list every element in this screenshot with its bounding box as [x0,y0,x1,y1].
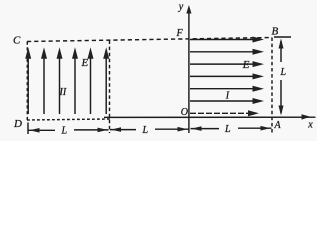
field arrow region I row1 (on dashed top edge) [190,37,264,43]
svg-text:II: II [59,87,67,98]
svg-text:B: B [272,26,279,38]
field arrow region II #1 [25,47,31,114]
bottom dashed edge D-to-O (left part) [27,119,110,120]
svg-text:O: O [181,107,188,118]
field arrow region II #5 [88,47,94,114]
x-axis [104,114,316,119]
svg-text:I: I [225,91,230,102]
field arrow region II #3 [57,47,63,114]
svg-text:L: L [61,126,68,137]
field arrow region II #4 [72,47,78,114]
svg-text:A: A [274,120,282,131]
field arrow region I row5 [190,86,264,92]
field arrow region I row7 [190,110,259,116]
field arrow region II #6 [103,47,109,114]
y-axis [186,5,191,133]
middle dashed boundary at x=109 [109,41,111,134]
svg-text:x: x [307,119,313,130]
svg-text:L: L [142,125,149,136]
svg-text:y: y [178,1,184,12]
svg-text:E: E [81,57,89,69]
dimension tick at D (x=28) [27,123,29,135]
right dashed edge A-to-B [271,38,273,135]
dimension line L1 (D to middle) [29,128,109,133]
svg-text:L: L [224,124,231,135]
svg-text:F: F [176,28,184,39]
dimension line L3 (O to A) [191,126,272,131]
svg-text:L: L [280,67,287,78]
field arrow region II #2 [41,47,47,114]
field arrow region I row4 [190,73,264,79]
field arrow region I row3 [190,61,264,67]
svg-text:D: D [13,118,22,130]
tick above B [274,36,291,38]
dimension line L2 (middle to O) [110,127,189,132]
svg-text:E: E [242,59,250,71]
svg-text:C: C [13,35,21,47]
right-side vertical dimension L [279,39,284,116]
field arrow region I row2 [190,49,264,55]
top dashed edge C-to-B [27,38,272,42]
field arrow region I row6 [190,98,264,104]
left dashed edge C-to-D [26,42,28,121]
